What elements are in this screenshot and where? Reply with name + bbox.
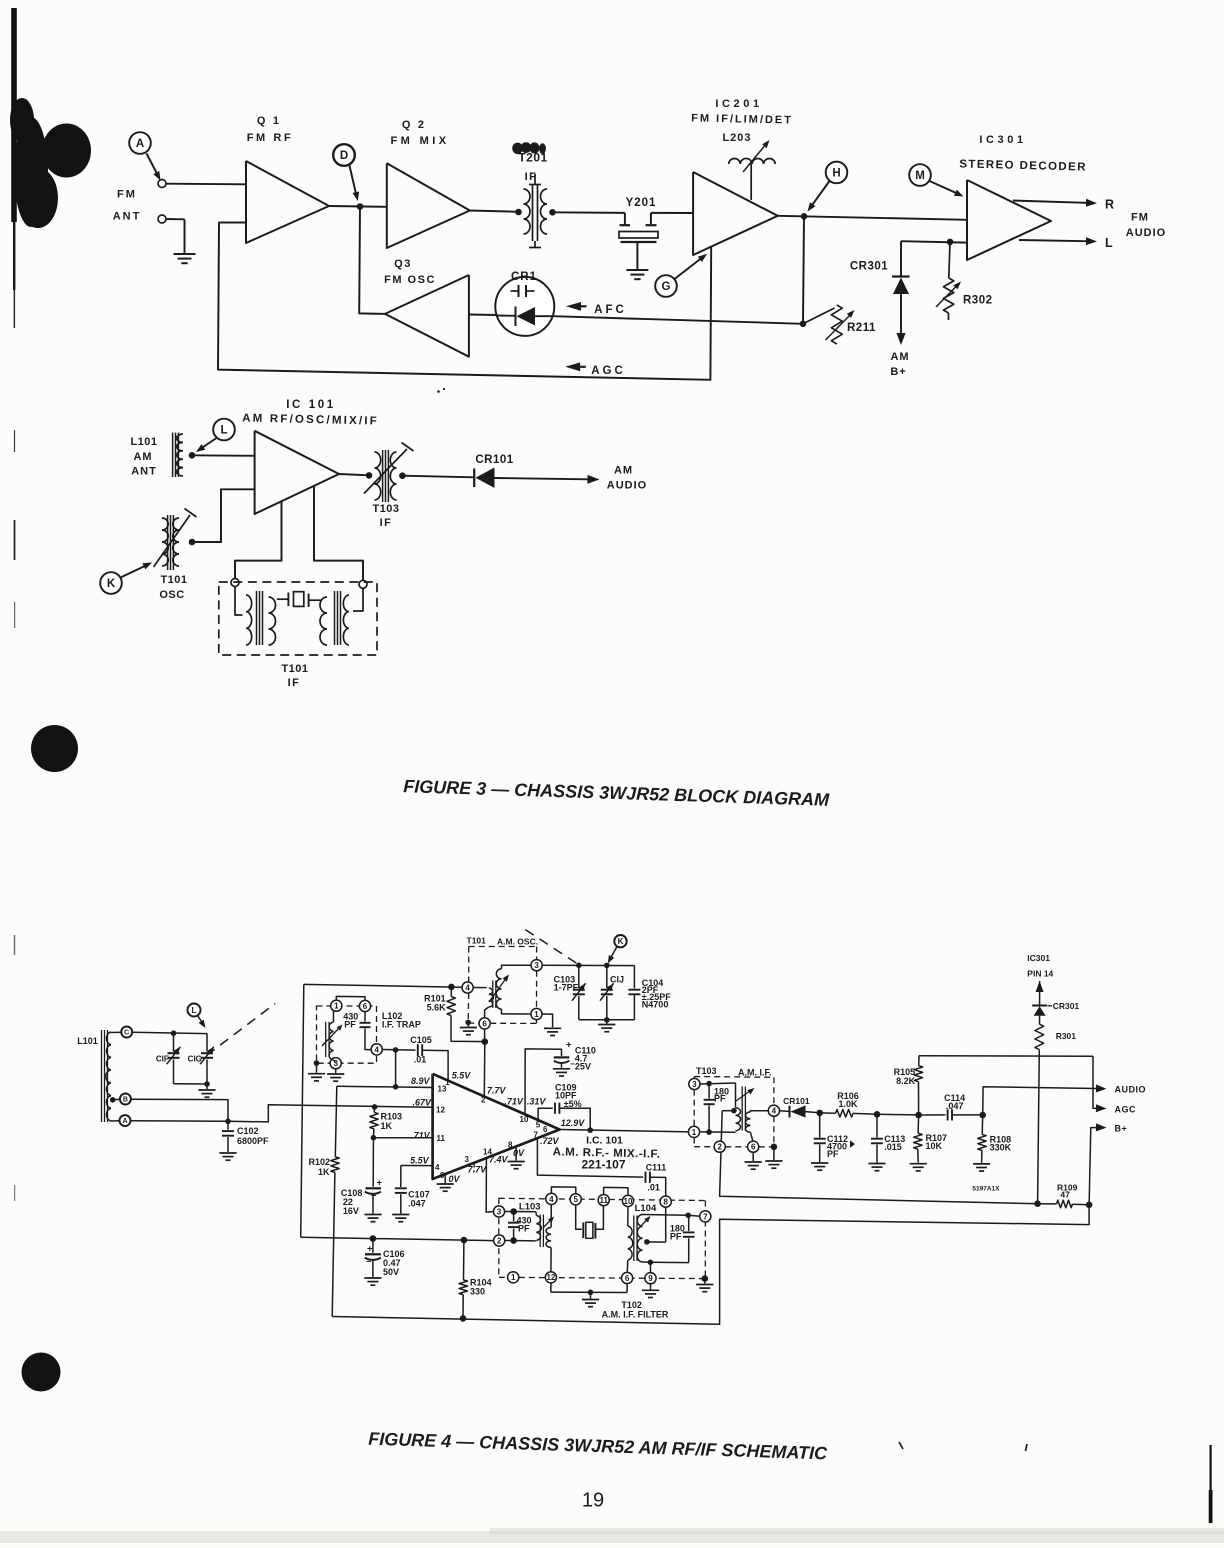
wire B to C102 — [131, 1099, 228, 1121]
dashed enclosure T103 — [694, 1066, 774, 1147]
terminal — [231, 579, 239, 587]
ground — [219, 1153, 236, 1160]
ground — [327, 1074, 344, 1081]
svg-text:M: M — [915, 170, 925, 182]
resistor R108 330K — [978, 1112, 1012, 1163]
svg-text:10K: 10K — [926, 1141, 943, 1151]
svg-text:6: 6 — [482, 1019, 487, 1028]
resistor R103 1K — [370, 1104, 402, 1138]
node — [576, 963, 582, 969]
svg-text:221-107: 221-107 — [581, 1158, 625, 1172]
wire AGC loop (Q1 input, left vertical, AGC line, right vertical) — [218, 223, 711, 380]
capacitor C104 — [628, 978, 671, 1020]
svg-text:4: 4 — [374, 1045, 379, 1054]
resistor R101 5.6K — [424, 984, 485, 1042]
svg-text:IF: IF — [288, 677, 301, 689]
varactor diode CR1 — [495, 271, 554, 336]
svg-text:12: 12 — [546, 1273, 555, 1282]
resistor R301 — [1035, 1024, 1076, 1204]
wire T102 pin4 to L103 — [550, 1205, 552, 1228]
dashed enclosure T102 — [499, 1198, 706, 1278]
FM ANT ground terminal — [158, 215, 185, 253]
node — [393, 1047, 399, 1090]
FM ANT terminal — [158, 180, 166, 188]
gang line (dashed) — [525, 930, 577, 964]
svg-text:T101: T101 — [160, 574, 187, 586]
svg-text:FM: FM — [117, 189, 137, 201]
svg-text:CIF: CIF — [156, 1055, 169, 1064]
wire (T101 pin1 to gnd) — [542, 1014, 553, 1027]
svg-text:9: 9 — [440, 1171, 445, 1180]
svg-text:AGC: AGC — [591, 365, 626, 377]
svg-text:A: A — [122, 1118, 127, 1125]
wire (T101 pin6 to IC pin2) — [482, 1029, 489, 1096]
svg-text:L: L — [220, 425, 227, 437]
variable resistor R302 — [936, 242, 993, 320]
svg-text:AM: AM — [133, 451, 152, 463]
svg-text:L203: L203 — [722, 132, 751, 144]
svg-text:R302: R302 — [963, 295, 993, 307]
svg-text:AFC: AFC — [594, 304, 627, 316]
wire — [542, 965, 634, 988]
wire — [553, 211, 625, 214]
inductor L104 with 180PF — [627, 1203, 700, 1273]
label AM AUDIO — [607, 465, 647, 492]
svg-text:T102: T102 — [621, 1300, 642, 1310]
amplifier Q2 FM MIX — [387, 119, 470, 248]
variable capacitor C103 — [554, 965, 586, 1020]
svg-text:C: C — [124, 1030, 129, 1037]
svg-text:4: 4 — [465, 983, 470, 992]
svg-text:Y201: Y201 — [626, 197, 657, 209]
wire L output — [1019, 236, 1113, 250]
svg-text:9: 9 — [648, 1274, 653, 1283]
wire — [402, 476, 474, 478]
svg-text:IC301: IC301 — [979, 134, 1026, 146]
resistor R109 47 — [1038, 1183, 1090, 1208]
wire B+ output — [1089, 1123, 1127, 1204]
svg-text:B: B — [123, 1097, 128, 1104]
capacitor C105 — [382, 1035, 448, 1081]
transformer T101 (osc) — [462, 960, 542, 1029]
transformer T101 OSC — [154, 509, 197, 602]
caption figure 4 — [368, 1429, 828, 1464]
wire — [470, 211, 519, 212]
crystal Y201 — [619, 197, 658, 269]
svg-text:A.M. I.F.: A.M. I.F. — [738, 1068, 772, 1078]
T101 IF internal filter — [235, 587, 363, 646]
svg-text:PIN 14: PIN 14 — [1027, 969, 1053, 979]
svg-text:PF: PF — [518, 1223, 530, 1233]
svg-text:N4700: N4700 — [642, 999, 669, 1009]
wire AUDIO output — [983, 1085, 1146, 1116]
wire pin9 ground — [642, 1284, 659, 1298]
svg-text:CR101: CR101 — [783, 1096, 810, 1106]
diode CR101 — [474, 454, 599, 488]
wire A to pin12 run — [131, 1105, 433, 1124]
dashed enclosure T101 IF — [219, 582, 377, 655]
ground — [973, 1164, 990, 1171]
svg-text:CR301: CR301 — [850, 261, 888, 273]
svg-text:C111: C111 — [646, 1162, 667, 1172]
svg-text:5: 5 — [536, 1121, 541, 1130]
svg-text:R103: R103 — [381, 1112, 403, 1122]
ground — [582, 1300, 599, 1307]
wire R105 top rail — [919, 1055, 1093, 1058]
caption figure 3 — [403, 776, 830, 810]
wire pin13 — [337, 1086, 433, 1087]
node L — [196, 419, 235, 452]
label I.C. 101 — [553, 1135, 661, 1172]
svg-text:3: 3 — [534, 961, 539, 970]
svg-text:5197A1X: 5197A1X — [972, 1186, 1000, 1193]
wire T103 pin6 ground — [745, 1152, 762, 1169]
capacitor C114 .047 — [919, 1093, 983, 1121]
svg-text:10: 10 — [624, 1197, 633, 1206]
svg-text:+: + — [377, 1178, 383, 1189]
diode CR301 — [850, 241, 910, 345]
svg-text:6800PF: 6800PF — [237, 1136, 269, 1146]
capacitor C109 10PF — [538, 1083, 590, 1130]
node A (FM ANT input) — [129, 132, 160, 180]
svg-text:2: 2 — [717, 1143, 722, 1152]
svg-text:A.M. I.F. FILTER: A.M. I.F. FILTER — [602, 1310, 669, 1320]
svg-text:8.9V: 8.9V — [411, 1076, 431, 1086]
node D — [333, 144, 359, 201]
terminal — [359, 580, 367, 588]
svg-text:16V: 16V — [343, 1206, 359, 1216]
wire pin9 + ground — [437, 1174, 454, 1191]
terminal A — [111, 1115, 131, 1126]
pin3 stub (dashed) — [473, 1164, 475, 1173]
svg-text:3: 3 — [497, 1207, 502, 1216]
inductor L103 with 430PF — [505, 1202, 555, 1248]
wire — [329, 205, 387, 208]
ground — [392, 1215, 409, 1222]
wire — [174, 1081, 210, 1089]
svg-text:T101: T101 — [467, 936, 487, 946]
wire — [192, 489, 255, 542]
svg-text:.71V: .71V — [411, 1131, 431, 1141]
jumper pins 11-10 — [604, 1187, 628, 1195]
svg-text:1: 1 — [334, 1002, 339, 1011]
svg-text:B+: B+ — [890, 366, 906, 378]
svg-text:I.F. TRAP: I.F. TRAP — [382, 1020, 421, 1030]
svg-text:5.6K: 5.6K — [427, 1003, 447, 1013]
svg-text:7.7V: 7.7V — [468, 1165, 488, 1175]
svg-text:7: 7 — [703, 1212, 708, 1221]
svg-text:11: 11 — [437, 1134, 446, 1143]
transformer T201 — [515, 174, 556, 248]
svg-text:+: + — [367, 1244, 373, 1255]
label 5197A1X — [972, 1186, 1000, 1193]
amplifier IC101 — [255, 431, 339, 514]
scan artifact: right edge line — [1209, 1445, 1213, 1523]
svg-text:−: − — [366, 1256, 371, 1266]
amplifier IC301 STEREO DECODER — [959, 134, 1087, 260]
svg-text:L103: L103 — [519, 1202, 541, 1213]
label AM B+ — [890, 351, 909, 378]
node — [604, 963, 610, 969]
terminal B — [110, 1094, 131, 1105]
svg-text:6: 6 — [625, 1274, 630, 1283]
svg-text:IF: IF — [525, 171, 538, 183]
svg-text:CR301: CR301 — [1053, 1001, 1080, 1011]
svg-text:D: D — [340, 150, 348, 162]
svg-text:IF: IF — [380, 517, 393, 529]
wire pin11 — [371, 1135, 433, 1141]
wire (H to AFC junction) — [803, 216, 804, 323]
wire (IC101 to T101 IF filter) — [235, 502, 282, 579]
ground — [174, 254, 196, 263]
capacitor C110 4.7/25V (electrolytic) — [525, 1040, 596, 1115]
svg-text:.047: .047 — [946, 1101, 964, 1111]
wire IC101 output — [560, 1127, 689, 1133]
svg-text:ANT: ANT — [131, 466, 157, 478]
wire left supply branch — [301, 984, 304, 1237]
wire (lower IC301 input) — [901, 241, 967, 242]
AGC arrow label — [565, 362, 626, 377]
svg-text:CR101: CR101 — [475, 454, 513, 466]
svg-text:47: 47 — [1060, 1190, 1070, 1200]
svg-text:K: K — [107, 578, 116, 590]
svg-text:A.M. OSC.: A.M. OSC. — [497, 937, 538, 947]
wire — [192, 454, 255, 457]
resistor R105 8.2K — [894, 1056, 923, 1115]
svg-text:L101: L101 — [77, 1036, 98, 1046]
svg-text:.71V: .71V — [504, 1097, 524, 1107]
capacitor 180PF (T103) — [700, 1081, 736, 1132]
svg-text:7.7V: 7.7V — [487, 1086, 507, 1096]
svg-text:H: H — [832, 168, 840, 180]
capacitor C113 .015 — [871, 1111, 905, 1163]
svg-text:FM MIX: FM MIX — [391, 135, 450, 147]
svg-text:.047: .047 — [408, 1199, 426, 1209]
capacitor C102 — [222, 1121, 269, 1152]
svg-text:5.5V: 5.5V — [452, 1071, 472, 1081]
svg-text:FM: FM — [1131, 212, 1149, 224]
capacitor C111 .01 — [646, 1162, 667, 1196]
svg-text:L104: L104 — [635, 1203, 657, 1214]
wire — [314, 486, 363, 580]
variable capacitor CIG — [188, 1034, 214, 1084]
wire to IC301 pin14 (arrow up) — [1036, 981, 1044, 1006]
ground — [198, 1090, 215, 1097]
svg-text:AUDIO: AUDIO — [1115, 1085, 1147, 1095]
ground — [811, 1163, 828, 1170]
svg-text:3: 3 — [692, 1080, 697, 1089]
svg-text:1K: 1K — [318, 1167, 330, 1177]
T102 pin circles — [493, 1193, 711, 1283]
svg-text:.01: .01 — [647, 1183, 660, 1193]
svg-text:AM: AM — [890, 351, 909, 363]
svg-text:5.5V: 5.5V — [410, 1156, 430, 1166]
node K (fig4) — [608, 935, 627, 964]
wire (Q3 to CR1) — [469, 314, 497, 317]
svg-text:AGC: AGC — [1115, 1105, 1137, 1115]
diode CR101 — [779, 1096, 819, 1117]
svg-text:FM OSC: FM OSC — [384, 274, 436, 286]
svg-text:2: 2 — [481, 1096, 486, 1105]
svg-text:PF: PF — [344, 1020, 356, 1030]
svg-text:0V: 0V — [513, 1148, 525, 1158]
wire pin14 to T102 pin3 — [486, 1158, 493, 1212]
svg-text:T101: T101 — [281, 663, 308, 675]
ground — [544, 1028, 561, 1035]
node (T101 box gnd) — [465, 1020, 471, 1027]
ground — [308, 1074, 325, 1081]
wire T102 inner ground — [551, 1283, 627, 1299]
svg-text:12.9V: 12.9V — [561, 1118, 586, 1128]
svg-text:K: K — [618, 937, 624, 946]
ground — [364, 1278, 381, 1285]
svg-text:L101: L101 — [130, 436, 157, 448]
svg-text:T103: T103 — [372, 503, 399, 515]
gang line (dashed) — [207, 1004, 276, 1056]
variable resistor R211 — [803, 305, 876, 344]
terminal C — [111, 1027, 132, 1038]
label T201 (ink smudged) — [512, 142, 547, 183]
IC101 amplifier triangle — [433, 1074, 560, 1179]
resistor R106 1.0K — [820, 1091, 877, 1117]
svg-text:Q 2: Q 2 — [402, 119, 426, 131]
svg-text:2: 2 — [497, 1236, 502, 1245]
svg-text:ANT: ANT — [113, 211, 142, 223]
node AFC junction — [800, 321, 807, 328]
scan artifact: bottom edge band — [0, 1528, 1224, 1543]
wire — [651, 212, 693, 214]
resistor R102 1K — [308, 1086, 339, 1316]
wire — [579, 1017, 635, 1023]
svg-text:T103: T103 — [696, 1066, 717, 1076]
node — [1086, 1202, 1093, 1209]
svg-text:8: 8 — [663, 1198, 668, 1207]
svg-text:PF: PF — [670, 1231, 682, 1241]
jumper pins 4-5 — [551, 1187, 575, 1194]
svg-text:±5%: ±5% — [564, 1099, 582, 1109]
transformer T103 coil — [700, 1083, 769, 1141]
ground — [910, 1164, 927, 1171]
transformer L101 AM ANT — [130, 433, 183, 478]
variable capacitor CIJ — [600, 965, 624, 1019]
wire B+ rail from T103 tap — [720, 1111, 1038, 1204]
svg-text:25V: 25V — [575, 1062, 591, 1072]
node H junction — [801, 213, 808, 220]
wire AFC line — [554, 316, 804, 324]
amplifier Q1 FM RF — [246, 115, 329, 243]
scan artifact: dot lower left — [22, 1353, 61, 1392]
node (L101 tap) — [189, 452, 196, 459]
svg-text:.67V: .67V — [412, 1098, 432, 1108]
node K — [100, 563, 152, 594]
svg-text:3: 3 — [465, 1155, 470, 1164]
svg-text:1: 1 — [511, 1273, 516, 1282]
svg-text:PF: PF — [827, 1149, 839, 1159]
wire to T102 pin2 — [301, 1237, 494, 1240]
AFC arrow label — [566, 302, 627, 316]
label IC301 PIN 14 — [1027, 953, 1053, 979]
node (L102 box gnd corner) — [314, 1060, 320, 1073]
svg-text:R102: R102 — [308, 1157, 330, 1167]
scan artifact: binding edge bar — [11, 8, 17, 1201]
svg-text:1K: 1K — [381, 1121, 393, 1131]
svg-text:L: L — [192, 1006, 197, 1015]
node (T101 tap) — [189, 539, 196, 546]
inductor L203 — [722, 132, 775, 200]
svg-text:Q3: Q3 — [394, 258, 412, 270]
node M — [909, 164, 963, 196]
svg-text:6: 6 — [751, 1143, 756, 1152]
svg-text:0V: 0V — [449, 1174, 461, 1184]
ground — [598, 1025, 615, 1032]
svg-text:.01: .01 — [414, 1055, 427, 1065]
svg-text:AUDIO: AUDIO — [607, 480, 647, 492]
wire AGC output — [1093, 1056, 1136, 1114]
svg-text:4: 4 — [772, 1107, 777, 1116]
svg-text:FM IF/LIM/DET: FM IF/LIM/DET — [691, 112, 793, 126]
wire R output — [1013, 198, 1114, 212]
svg-text:IC301: IC301 — [1027, 953, 1050, 963]
svg-text:1: 1 — [692, 1128, 697, 1137]
IC101 pin voltage labels — [410, 1071, 585, 1185]
wire — [335, 1069, 337, 1073]
svg-text:OSC: OSC — [159, 589, 184, 601]
node junction at R302 — [947, 239, 954, 246]
svg-text:50V: 50V — [383, 1267, 399, 1277]
resistor R107 10K — [914, 1112, 947, 1163]
label T102 — [602, 1300, 669, 1320]
svg-text:A: A — [136, 138, 144, 150]
stray quote marks — [899, 1442, 1027, 1451]
svg-text:PF: PF — [714, 1094, 726, 1104]
svg-text:4: 4 — [549, 1195, 554, 1204]
wire pin8 + ground — [508, 1147, 525, 1169]
label IC101 — [242, 399, 379, 428]
svg-text:12: 12 — [436, 1106, 445, 1115]
svg-text:7: 7 — [534, 1131, 539, 1140]
wire (IC201 output) — [778, 216, 967, 220]
transformer T103 IF — [364, 443, 414, 530]
svg-text:CR1: CR1 — [511, 271, 537, 283]
svg-text:8.2K: 8.2K — [896, 1076, 916, 1086]
svg-text:330K: 330K — [990, 1143, 1012, 1153]
svg-text:IC201: IC201 — [715, 98, 762, 110]
wire (IC101 output) — [339, 474, 369, 475]
amplifier IC201 FM IF/LIM/DET — [691, 98, 793, 255]
svg-text:11: 11 — [599, 1196, 608, 1205]
wire (D to Q3) — [359, 207, 385, 314]
svg-text:.72V: .72V — [540, 1136, 560, 1146]
svg-text:C105: C105 — [410, 1035, 432, 1045]
dashed enclosure T101 A.M. OSC — [467, 936, 539, 1024]
wire L103 to pin12 — [550, 1248, 552, 1272]
svg-text:G: G — [662, 281, 671, 293]
node H — [808, 162, 848, 212]
svg-text:R: R — [1105, 198, 1114, 212]
inductor L102 I.F. TRAP — [322, 996, 421, 1068]
node G — [655, 254, 707, 297]
svg-text:C102: C102 — [237, 1126, 259, 1136]
svg-text:+: + — [566, 1040, 572, 1051]
wire — [877, 1113, 919, 1116]
diode CR301 (fig4) — [1032, 1001, 1079, 1024]
svg-text:AM: AM — [614, 465, 633, 477]
node D junction — [357, 203, 364, 210]
stray marks — [437, 388, 445, 393]
capacitor C112 4700PF — [814, 1110, 855, 1162]
svg-text:R211: R211 — [847, 322, 876, 334]
svg-text:1-7PF: 1-7PF — [554, 983, 579, 993]
